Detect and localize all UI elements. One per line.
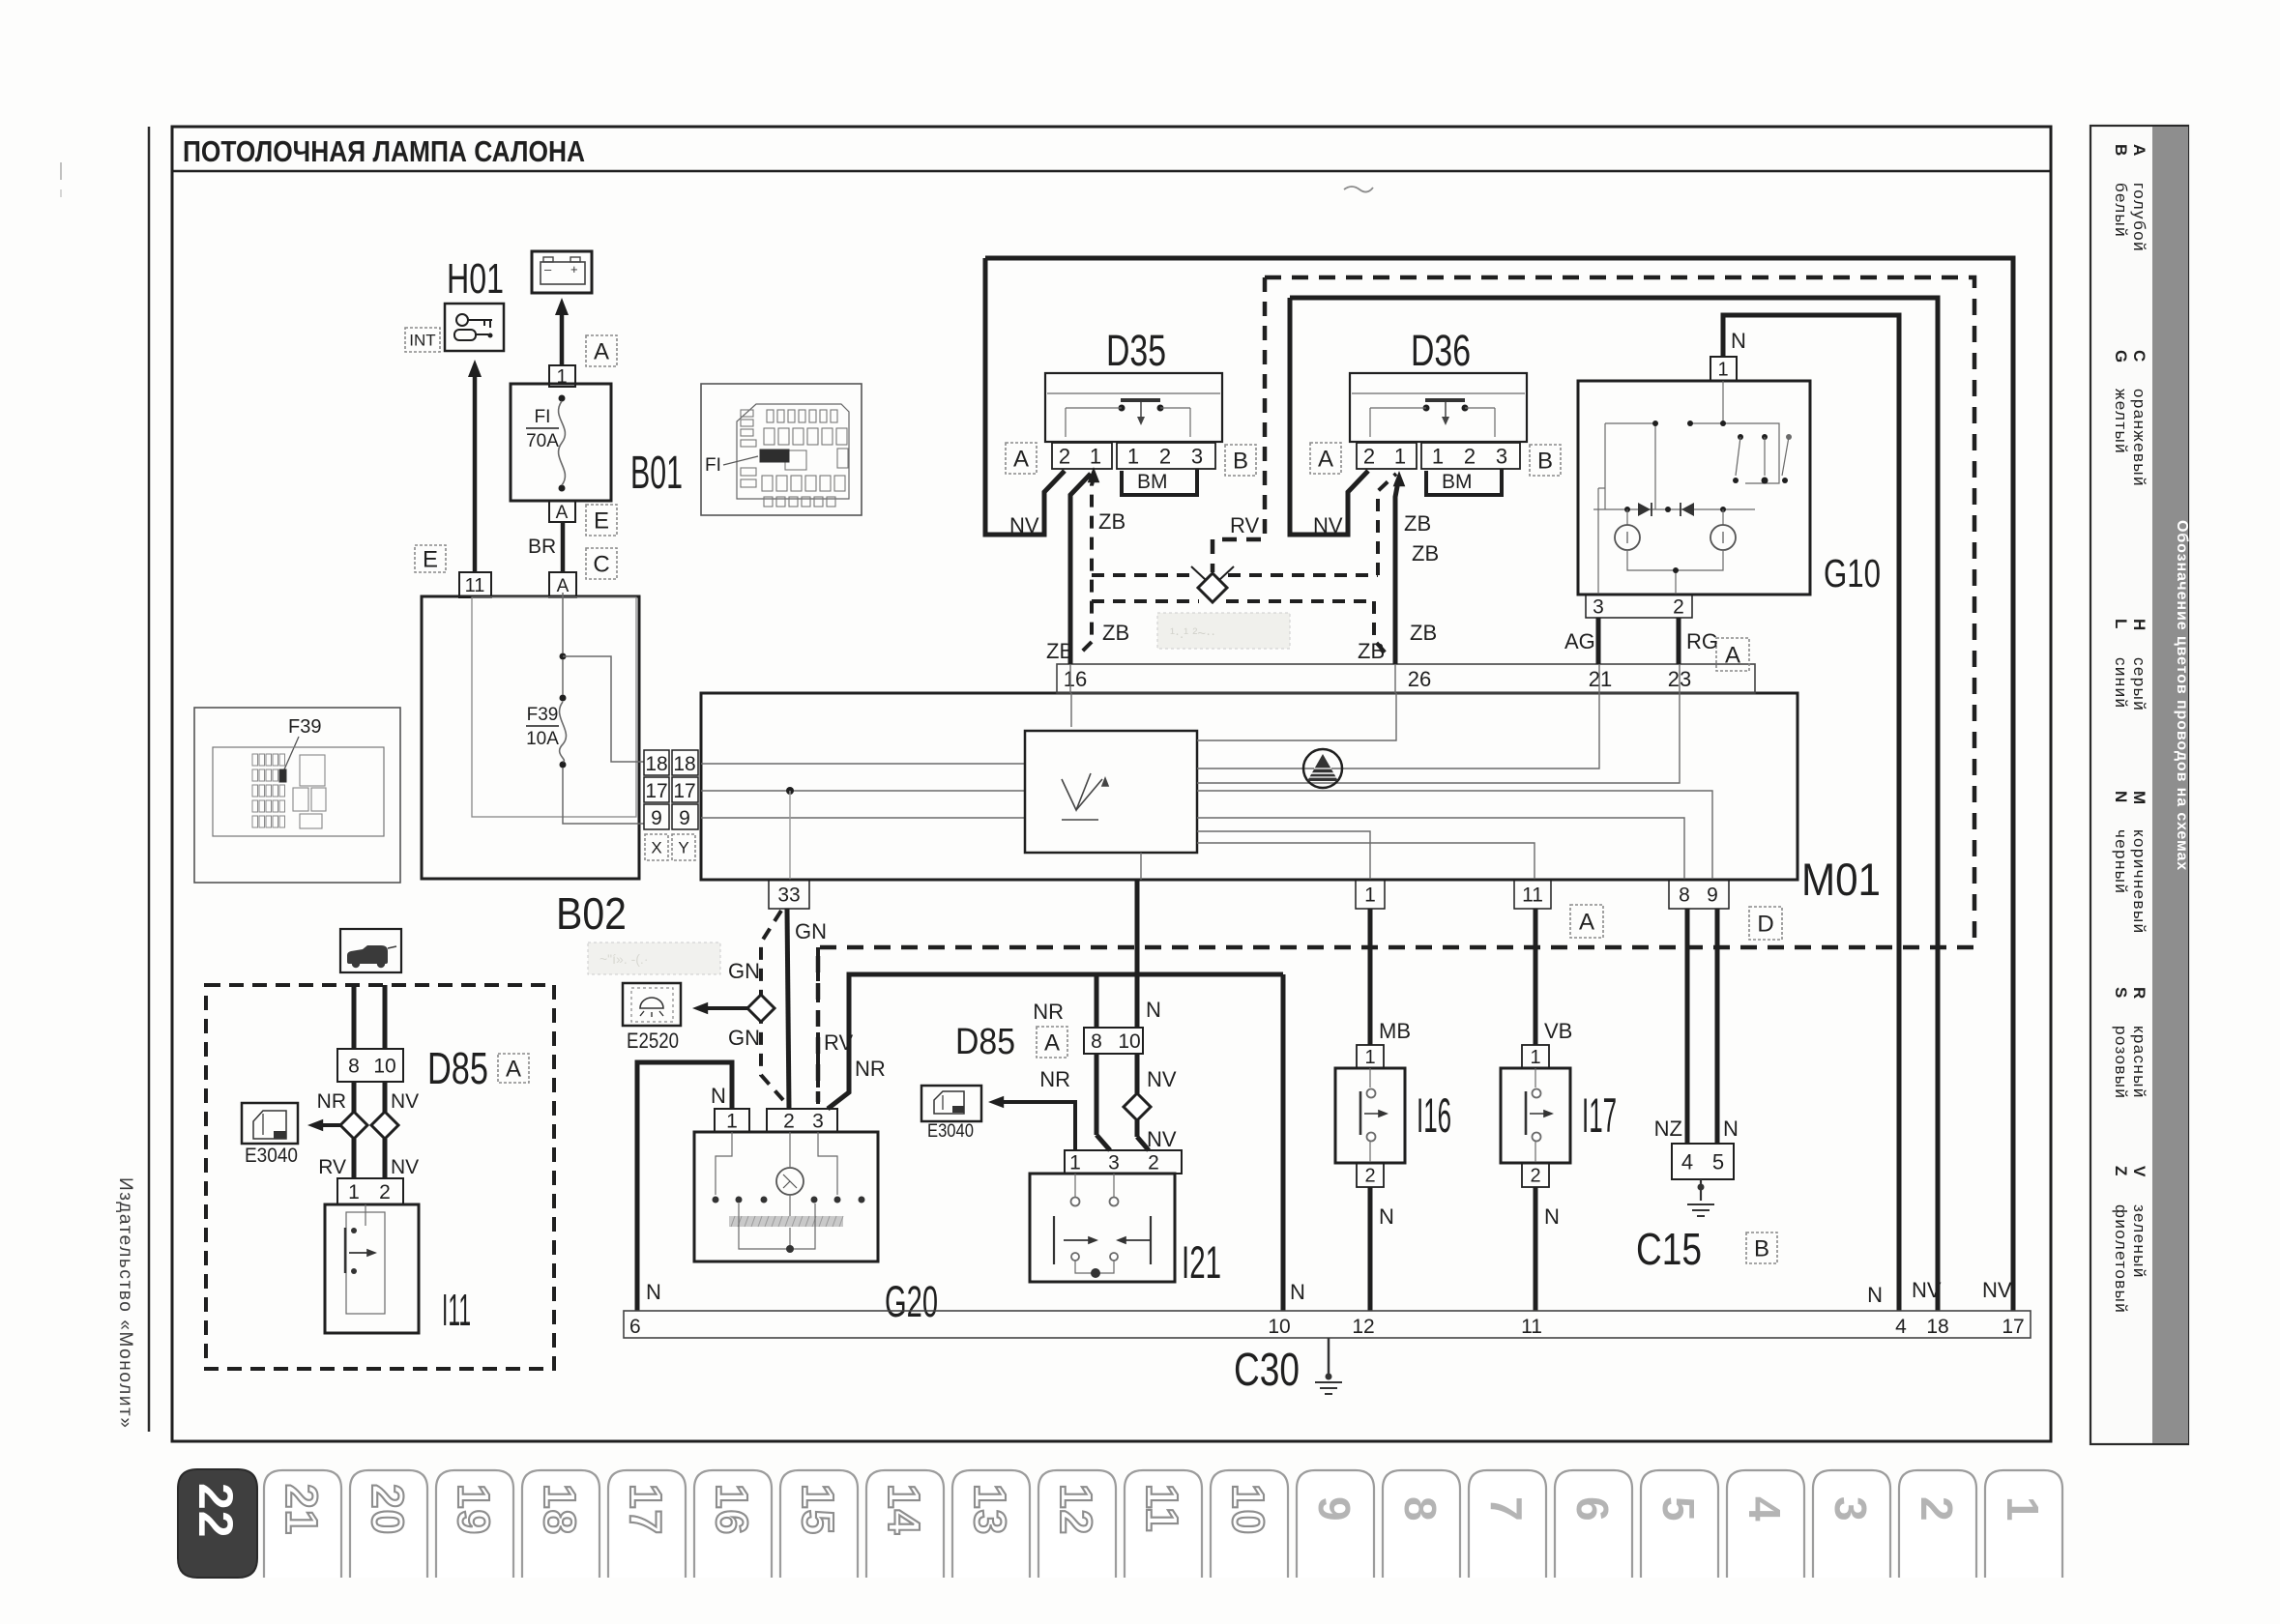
svg-text:3: 3 <box>1826 1496 1876 1522</box>
svg-text:D85: D85 <box>427 1043 488 1093</box>
svg-text:A: A <box>506 1057 521 1083</box>
svg-text:11: 11 <box>1521 1316 1542 1338</box>
svg-text:16: 16 <box>1064 667 1087 691</box>
svg-text:белый: белый <box>2112 183 2130 238</box>
svg-text:ZB: ZB <box>1358 639 1385 663</box>
svg-text:17: 17 <box>645 780 667 802</box>
svg-text:11: 11 <box>1137 1484 1187 1533</box>
svg-text:H01: H01 <box>447 255 504 303</box>
svg-text:RV: RV <box>1230 513 1259 537</box>
svg-text:1: 1 <box>1530 1047 1540 1068</box>
svg-text:12: 12 <box>1051 1484 1101 1535</box>
svg-text:F39: F39 <box>288 716 321 738</box>
svg-text:1: 1 <box>1432 444 1444 468</box>
svg-text:7: 7 <box>1481 1496 1532 1522</box>
svg-text:серый: серый <box>2130 657 2148 711</box>
svg-text:26: 26 <box>1408 667 1431 691</box>
svg-text:¹·.¹ ²~··: ¹·.¹ ²~·· <box>1170 625 1215 642</box>
svg-text:A: A <box>2130 144 2148 156</box>
svg-text:11: 11 <box>1522 884 1543 907</box>
svg-text:зеленый: зеленый <box>2130 1204 2148 1279</box>
svg-text:ZB: ZB <box>1098 509 1125 534</box>
svg-text:9: 9 <box>679 807 690 829</box>
svg-text:3: 3 <box>1593 596 1604 619</box>
svg-text:ZB: ZB <box>1412 541 1439 565</box>
svg-text:1: 1 <box>1364 1047 1375 1068</box>
svg-text:1: 1 <box>348 1181 360 1203</box>
svg-text:8: 8 <box>1679 884 1690 907</box>
svg-text:ZB: ZB <box>1410 621 1437 645</box>
svg-text:NR: NR <box>1039 1067 1070 1091</box>
svg-text:21: 21 <box>1589 667 1612 691</box>
svg-text:19: 19 <box>449 1484 499 1535</box>
svg-text:G20: G20 <box>885 1277 938 1326</box>
svg-text:1: 1 <box>1127 444 1139 468</box>
svg-text:B01: B01 <box>630 448 683 499</box>
svg-text:VB: VB <box>1544 1019 1572 1043</box>
svg-text:Y: Y <box>678 839 688 857</box>
svg-text:B: B <box>2112 144 2130 156</box>
svg-text:L: L <box>2112 619 2130 628</box>
svg-text:1: 1 <box>1364 884 1376 907</box>
svg-text:NR: NR <box>1033 1000 1064 1024</box>
svg-text:6: 6 <box>629 1316 641 1338</box>
svg-text:MB: MB <box>1379 1019 1411 1043</box>
svg-text:D35: D35 <box>1106 326 1166 375</box>
svg-text:Издательство «Монолит»: Издательство «Монолит» <box>115 1177 135 1430</box>
svg-text:1: 1 <box>1998 1496 2048 1522</box>
svg-text:D36: D36 <box>1411 326 1471 375</box>
svg-text:5: 5 <box>1653 1496 1704 1522</box>
svg-text:GN: GN <box>795 919 827 943</box>
svg-text:E: E <box>423 547 438 573</box>
svg-text:B: B <box>1233 449 1248 475</box>
svg-text:N: N <box>1544 1204 1560 1229</box>
svg-text:X: X <box>651 839 661 857</box>
svg-text:I21: I21 <box>1182 1236 1221 1288</box>
svg-text:1: 1 <box>726 1111 738 1133</box>
svg-text:фиолетовый: фиолетовый <box>2112 1204 2130 1314</box>
svg-text:C: C <box>2130 350 2148 362</box>
svg-text:NV: NV <box>391 1090 419 1113</box>
svg-text:ZB: ZB <box>1404 511 1431 536</box>
svg-text:розовый: розовый <box>2112 1026 2130 1099</box>
svg-text:NR: NR <box>317 1090 346 1113</box>
svg-text:H: H <box>2130 619 2148 630</box>
svg-text:3: 3 <box>1108 1152 1120 1174</box>
svg-text:NV: NV <box>391 1156 419 1178</box>
svg-text:3: 3 <box>1496 444 1507 468</box>
svg-text:оранжевый: оранжевый <box>2130 389 2148 487</box>
svg-text:2: 2 <box>1464 444 1476 468</box>
svg-text:B: B <box>1754 1236 1769 1262</box>
svg-text:N: N <box>711 1084 726 1108</box>
svg-text:16: 16 <box>707 1484 757 1535</box>
svg-text:NV: NV <box>1912 1278 1942 1302</box>
svg-text:ZB: ZB <box>1102 621 1129 645</box>
svg-text:~"í». -(.·: ~"í». -(.· <box>599 951 648 967</box>
svg-text:2: 2 <box>1363 444 1375 468</box>
svg-text:1: 1 <box>1394 444 1406 468</box>
svg-text:10: 10 <box>373 1056 395 1078</box>
svg-text:N: N <box>1731 329 1746 353</box>
svg-text:2: 2 <box>379 1181 391 1203</box>
svg-text:4: 4 <box>1895 1316 1907 1338</box>
svg-text:G: G <box>2112 350 2130 362</box>
svg-text:NV: NV <box>1009 513 1039 537</box>
svg-text:NR: NR <box>855 1057 886 1081</box>
svg-text:2: 2 <box>783 1111 795 1133</box>
svg-text:10A: 10A <box>526 729 559 749</box>
svg-text:70A: 70A <box>526 431 559 451</box>
svg-text:E2520: E2520 <box>627 1029 679 1053</box>
svg-text:10: 10 <box>1118 1030 1140 1053</box>
svg-text:N: N <box>1290 1280 1305 1304</box>
svg-text:+: + <box>570 262 578 276</box>
svg-text:11: 11 <box>465 575 485 596</box>
svg-text:M01: M01 <box>1801 854 1881 905</box>
svg-text:A: A <box>1044 1030 1060 1057</box>
svg-text:3: 3 <box>1191 444 1203 468</box>
svg-text:A: A <box>1318 447 1333 473</box>
svg-text:N: N <box>1379 1204 1394 1229</box>
svg-text:N: N <box>646 1280 661 1304</box>
svg-text:2: 2 <box>1148 1152 1159 1174</box>
svg-text:ПОТОЛОЧНАЯ ЛАМПА САЛОНА: ПОТОЛОЧНАЯ ЛАМПА САЛОНА <box>183 134 585 168</box>
svg-text:NV: NV <box>1982 1278 2012 1302</box>
svg-text:Z: Z <box>2112 1166 2130 1175</box>
svg-text:FI: FI <box>535 407 551 427</box>
svg-text:2: 2 <box>1912 1496 1962 1522</box>
svg-text:A: A <box>1013 447 1029 473</box>
svg-text:N: N <box>1867 1283 1883 1307</box>
svg-text:12: 12 <box>1352 1316 1374 1338</box>
svg-text:2: 2 <box>1530 1166 1540 1187</box>
svg-text:A: A <box>1579 910 1594 936</box>
svg-text:R: R <box>2130 987 2148 999</box>
svg-text:4: 4 <box>1681 1149 1693 1174</box>
svg-text:коричневый: коричневый <box>2130 829 2148 934</box>
svg-text:18: 18 <box>1926 1316 1948 1338</box>
svg-text:голубой: голубой <box>2130 183 2148 252</box>
svg-text:D: D <box>1757 912 1773 938</box>
svg-text:3: 3 <box>812 1111 824 1133</box>
svg-text:синий: синий <box>2112 657 2130 709</box>
svg-text:C15: C15 <box>1636 1224 1702 1274</box>
svg-text:BM: BM <box>1137 471 1168 493</box>
svg-text:A: A <box>556 503 569 523</box>
svg-text:20: 20 <box>363 1484 413 1535</box>
svg-text:V: V <box>2130 1166 2148 1177</box>
svg-text:ZB: ZB <box>1046 639 1073 663</box>
svg-text:2: 2 <box>1159 444 1171 468</box>
svg-text:9: 9 <box>1707 884 1718 907</box>
svg-text:RV: RV <box>824 1030 853 1055</box>
svg-text:INT: INT <box>409 332 435 350</box>
svg-text:14: 14 <box>879 1484 929 1535</box>
svg-text:22: 22 <box>189 1483 243 1539</box>
svg-text:21: 21 <box>277 1484 327 1535</box>
svg-text:9: 9 <box>1309 1496 1359 1522</box>
svg-text:желтый: желтый <box>2112 389 2130 454</box>
svg-text:17: 17 <box>2002 1316 2024 1338</box>
svg-text:18: 18 <box>535 1484 585 1535</box>
svg-text:2: 2 <box>1059 444 1070 468</box>
svg-text:I11: I11 <box>442 1285 471 1335</box>
svg-text:S: S <box>2112 987 2130 998</box>
svg-text:NV: NV <box>1147 1127 1177 1151</box>
svg-text:8: 8 <box>1091 1030 1102 1053</box>
svg-text:2: 2 <box>1364 1166 1375 1187</box>
svg-text:15: 15 <box>793 1484 843 1535</box>
svg-text:N: N <box>1146 998 1161 1022</box>
svg-text:10: 10 <box>1223 1484 1273 1535</box>
svg-text:6: 6 <box>1567 1496 1618 1522</box>
svg-text:I17: I17 <box>1582 1088 1617 1143</box>
svg-text:5: 5 <box>1712 1149 1724 1174</box>
svg-text:1: 1 <box>1717 360 1728 381</box>
svg-text:1: 1 <box>1069 1152 1081 1174</box>
svg-text:18: 18 <box>645 753 667 775</box>
svg-text:Обозначение цветов проводов на: Обозначение цветов проводов на схемах <box>2174 520 2190 871</box>
svg-text:33: 33 <box>777 884 800 907</box>
svg-text:N: N <box>1723 1116 1739 1141</box>
svg-text:красный: красный <box>2130 1026 2148 1099</box>
svg-text:E3040: E3040 <box>927 1121 974 1142</box>
svg-text:C: C <box>593 552 609 578</box>
svg-text:E: E <box>594 508 609 535</box>
svg-text:GN: GN <box>728 1026 760 1050</box>
svg-text:A: A <box>1725 643 1740 669</box>
svg-text:BM: BM <box>1442 471 1473 493</box>
svg-text:N: N <box>2112 791 2130 802</box>
svg-text:E3040: E3040 <box>245 1145 298 1167</box>
svg-text:17: 17 <box>621 1484 671 1535</box>
svg-text:AG: AG <box>1564 629 1595 653</box>
svg-text:–: – <box>544 262 552 276</box>
svg-text:RV: RV <box>318 1156 346 1178</box>
svg-text:C30: C30 <box>1234 1345 1300 1396</box>
svg-text:4: 4 <box>1739 1496 1790 1522</box>
svg-text:NV: NV <box>1313 513 1343 537</box>
svg-text:8: 8 <box>1395 1496 1446 1522</box>
svg-text:B: B <box>1537 449 1553 475</box>
svg-text:10: 10 <box>1268 1316 1290 1338</box>
svg-text:FI: FI <box>705 455 721 476</box>
svg-text:8: 8 <box>348 1056 360 1078</box>
svg-text:18: 18 <box>673 753 695 775</box>
svg-text:BR: BR <box>528 536 556 558</box>
svg-text:RG: RG <box>1686 629 1718 653</box>
svg-text:черный: черный <box>2112 829 2130 894</box>
svg-text:17: 17 <box>673 780 695 802</box>
svg-text:NV: NV <box>1147 1067 1177 1091</box>
svg-text:A: A <box>594 339 609 365</box>
svg-text:9: 9 <box>651 807 662 829</box>
svg-text:G10: G10 <box>1824 551 1881 595</box>
svg-text:2: 2 <box>1673 596 1684 619</box>
svg-text:M: M <box>2130 791 2148 804</box>
svg-text:13: 13 <box>965 1484 1015 1535</box>
svg-text:D85: D85 <box>955 1022 1015 1062</box>
svg-text:GN: GN <box>728 959 760 983</box>
svg-text:F39: F39 <box>527 705 559 725</box>
svg-text:I16: I16 <box>1417 1088 1451 1143</box>
svg-text:NZ: NZ <box>1654 1116 1682 1141</box>
svg-text:B02: B02 <box>556 888 627 939</box>
svg-text:1: 1 <box>1090 444 1101 468</box>
